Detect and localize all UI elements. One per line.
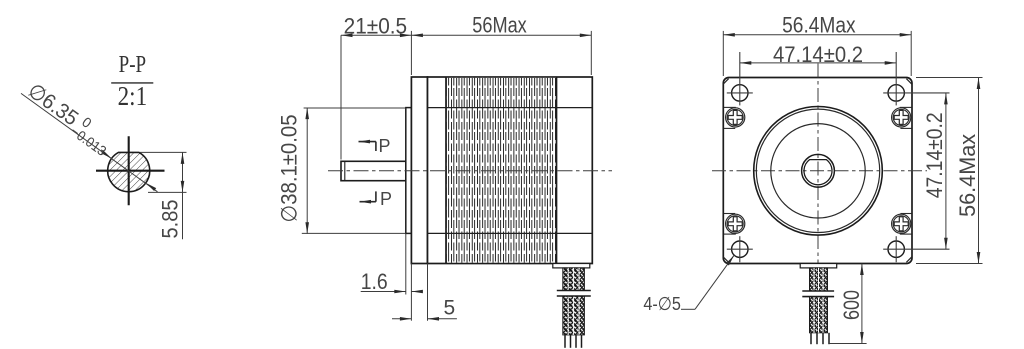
mounting hole top-left bbox=[727, 52, 753, 105]
dimension Ø38.1±0.05 bbox=[277, 108, 406, 234]
shaft section circle with flat (hatched) bbox=[108, 152, 150, 191]
view label P-P 2:1 bbox=[111, 52, 153, 111]
end bell inner circle bbox=[771, 124, 865, 218]
svg-text:2:1: 2:1 bbox=[118, 81, 148, 111]
assembly screw top-right bbox=[892, 108, 911, 127]
svg-text:5: 5 bbox=[444, 296, 456, 319]
dimension 21±0.5 bbox=[341, 13, 411, 159]
svg-text:47.14±0.2: 47.14±0.2 bbox=[773, 42, 863, 67]
mounting hole bottom-right bbox=[883, 236, 949, 262]
wire exit plate (front view) bbox=[800, 264, 837, 268]
mounting flange bbox=[411, 77, 427, 264]
svg-text:1.6: 1.6 bbox=[361, 269, 388, 294]
assembly screw bottom-right bbox=[892, 214, 911, 233]
svg-text:P-P: P-P bbox=[119, 52, 147, 78]
mounting hole bottom-left bbox=[727, 236, 753, 262]
lamination stack bbox=[446, 78, 557, 263]
svg-text:∅6.35: ∅6.35 bbox=[23, 79, 82, 130]
shaft circle with flat bbox=[804, 160, 832, 185]
motor front face outline bbox=[723, 78, 912, 264]
pilot boss chamfer circle bbox=[756, 109, 879, 232]
wire exit plate (side view) bbox=[553, 264, 590, 268]
dimension 5.85 bbox=[140, 152, 187, 239]
dimension 600 (lead length) bbox=[829, 264, 867, 344]
pilot boss bbox=[406, 108, 412, 234]
section view centerlines bbox=[96, 170, 165, 172]
svg-text:5.85: 5.85 bbox=[158, 200, 183, 239]
svg-text:47.14±0.2: 47.14±0.2 bbox=[922, 112, 947, 198]
dimension 56.4Max (top) bbox=[723, 12, 911, 76]
svg-text:4-∅5: 4-∅5 bbox=[643, 293, 681, 314]
dimension 1.6 bbox=[361, 233, 423, 320]
pilot boss circle (outer) bbox=[754, 107, 883, 236]
lead wires (front view) bbox=[811, 333, 829, 344]
section cut mark P (bottom) bbox=[360, 189, 393, 209]
centerline (shaft axis) bbox=[328, 170, 612, 172]
wire bundle (front view) bbox=[810, 268, 828, 333]
front view centerlines bbox=[712, 170, 927, 172]
svg-text:56.4Max: 56.4Max bbox=[955, 134, 980, 217]
svg-text:600: 600 bbox=[839, 290, 864, 320]
svg-text:56.4Max: 56.4Max bbox=[782, 12, 856, 37]
assembly screws (4x phillips) bbox=[726, 108, 911, 234]
shaft boss circle bbox=[802, 154, 835, 187]
corner chamfers bbox=[723, 79, 912, 263]
end-bell step lines bbox=[428, 107, 593, 109]
wire bundle (side view) bbox=[563, 268, 585, 335]
shaft chamfer line bbox=[344, 161, 346, 180]
dimension 56.4Max (right, vertical) bbox=[916, 78, 983, 264]
lead wires (side view) bbox=[565, 335, 582, 348]
dimension 47.14±0.2 (right, vertical) bbox=[922, 93, 948, 249]
svg-text:P: P bbox=[379, 136, 391, 156]
cable band (front view) bbox=[802, 291, 834, 297]
svg-text:21±0.5: 21±0.5 bbox=[344, 13, 408, 38]
end-bell corner pocket lines bbox=[724, 107, 912, 234]
svg-text:P: P bbox=[380, 189, 392, 209]
mounting hole top-right bbox=[883, 52, 949, 105]
leader / diameter dimension line for shaft bbox=[21, 93, 158, 191]
cable band (side view) bbox=[557, 291, 591, 297]
value label Ø6.35 0/-0.013 bbox=[21, 77, 118, 159]
dimension 5 bbox=[392, 264, 457, 321]
motor body outline bbox=[428, 77, 593, 264]
dimension 56Max bbox=[411, 12, 591, 75]
svg-text:56Max: 56Max bbox=[472, 12, 527, 37]
mounting holes (4x Ø5) with crosshairs bbox=[727, 52, 950, 262]
svg-text:−0.013: −0.013 bbox=[68, 123, 110, 159]
section cut mark P (top) bbox=[359, 136, 391, 156]
shaft bbox=[341, 161, 406, 180]
svg-text:∅38.1±0.05: ∅38.1±0.05 bbox=[277, 115, 302, 223]
dimension 47.14±0.2 (top) bbox=[740, 42, 896, 67]
assembly screw bottom-left bbox=[726, 214, 745, 233]
label 4-Ø5 with leader bbox=[643, 254, 735, 314]
assembly screw top-left bbox=[726, 108, 745, 127]
